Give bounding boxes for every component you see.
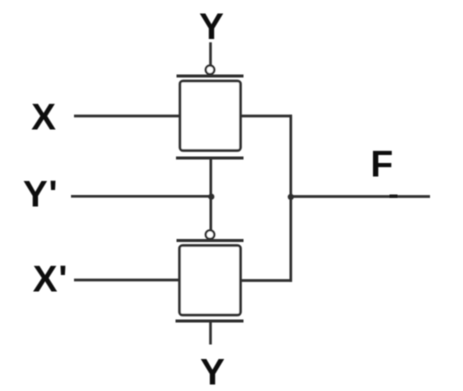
wire X' to U2 left terminal xyxy=(74,279,180,282)
wire F output xyxy=(291,195,430,198)
wire U2 lower plate to Y xyxy=(209,322,212,345)
wire X to U1 left terminal xyxy=(74,115,180,118)
wire overlap mark on F line xyxy=(390,194,398,197)
pass gate U2 body box xyxy=(180,246,241,316)
inversion bubble on U2 gate xyxy=(206,230,215,239)
svg-text:X': X' xyxy=(33,258,68,299)
svg-text:X: X xyxy=(31,96,56,137)
pass gate U2 bottom plate bar xyxy=(176,320,244,323)
wire right bus vertical xyxy=(289,115,292,282)
wire Y to bubble of U1 xyxy=(209,42,212,65)
pass gate U1 body box xyxy=(180,81,241,151)
wire Y' to center node xyxy=(71,195,212,198)
svg-text:Y: Y xyxy=(199,6,224,47)
wire U1 lower plate to U2 bubble xyxy=(209,158,212,231)
pass gate U1 top plate bar xyxy=(177,75,244,78)
svg-text:F: F xyxy=(371,143,394,184)
pass gate U2 top plate bar xyxy=(177,239,244,242)
pass gate U1 bottom plate bar xyxy=(176,157,244,160)
svg-text:Y: Y xyxy=(200,352,225,391)
junction dot at output bus xyxy=(288,194,294,200)
wire U2 right terminal to right bus xyxy=(240,279,292,282)
junction dot at Y' / gate line xyxy=(208,194,214,200)
svg-text:Y': Y' xyxy=(23,173,58,214)
inversion bubble on U1 gate xyxy=(206,66,215,75)
wire U1 right terminal to right bus xyxy=(241,115,293,118)
